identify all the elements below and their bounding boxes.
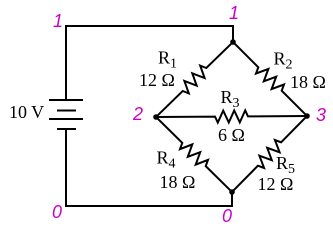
resistor R4 — [156, 117, 232, 192]
svg-text:10 V: 10 V — [9, 102, 44, 122]
resistor R5 — [232, 116, 307, 192]
svg-text:3: 3 — [316, 105, 326, 125]
svg-text:12 Ω: 12 Ω — [258, 174, 294, 194]
battery B1 long plate — [50, 118, 82, 120]
battery B1 short plate — [58, 110, 75, 112]
svg-text:2: 2 — [132, 104, 143, 124]
svg-text:6 Ω: 6 Ω — [218, 125, 245, 145]
battery B1 short plate bottom — [58, 128, 75, 130]
svg-text:1: 1 — [229, 3, 239, 23]
node 0 junction dot — [229, 189, 235, 195]
node 3 junction dot — [304, 113, 310, 119]
resistor R3 — [156, 110, 307, 122]
svg-text:12 Ω: 12 Ω — [139, 70, 175, 90]
battery B1 long plate top — [50, 99, 82, 101]
svg-text:18 Ω: 18 Ω — [290, 72, 326, 92]
resistor R2 — [233, 42, 307, 116]
node 1 junction dot — [230, 39, 236, 45]
svg-text:18 Ω: 18 Ω — [160, 172, 196, 192]
svg-text:0: 0 — [52, 202, 62, 222]
node 2 junction dot — [153, 114, 159, 120]
svg-text:0: 0 — [222, 206, 232, 226]
wire top rail — [66, 26, 233, 99]
wire bottom rail — [66, 129, 232, 206]
resistor R1 — [156, 42, 233, 117]
svg-text:1: 1 — [53, 11, 63, 31]
